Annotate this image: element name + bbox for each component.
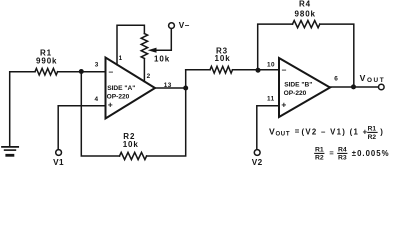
- svg-text:OP-220: OP-220: [284, 90, 307, 97]
- svg-text:R1: R1: [368, 126, 377, 133]
- svg-text:10k: 10k: [123, 140, 139, 149]
- svg-text:+: +: [281, 99, 286, 109]
- svg-text:–: –: [109, 66, 114, 76]
- svg-text:±0.005%: ±0.005%: [352, 149, 390, 158]
- svg-text:+: +: [108, 100, 113, 110]
- svg-text:2: 2: [147, 73, 151, 80]
- svg-text:11: 11: [267, 96, 275, 103]
- svg-text:R4: R4: [338, 147, 347, 154]
- svg-text:R2: R2: [368, 134, 377, 141]
- svg-text:10k: 10k: [215, 54, 231, 63]
- svg-text:R2: R2: [315, 155, 324, 162]
- svg-text:10: 10: [267, 61, 275, 68]
- svg-text:1: 1: [119, 55, 123, 62]
- svg-text:): ): [380, 128, 383, 137]
- svg-text:VOUT: VOUT: [269, 127, 290, 138]
- svg-text:SIDE "A": SIDE "A": [107, 85, 135, 92]
- svg-text:VOUT: VOUT: [360, 73, 386, 84]
- svg-text:=: =: [295, 127, 300, 136]
- svg-text:R3: R3: [338, 155, 347, 162]
- svg-text:4: 4: [95, 96, 99, 103]
- svg-text:R4: R4: [299, 0, 311, 9]
- svg-text:10k: 10k: [154, 55, 170, 64]
- svg-text:980k: 980k: [295, 10, 316, 19]
- svg-text:V–: V–: [179, 21, 190, 30]
- svg-text:(V2 – V1) (1 +: (V2 – V1) (1 +: [302, 128, 369, 137]
- svg-text:SIDE "B": SIDE "B": [284, 82, 312, 89]
- svg-text:3: 3: [95, 62, 99, 69]
- svg-text:–: –: [282, 65, 287, 75]
- svg-text:990k: 990k: [36, 57, 57, 66]
- svg-text:13: 13: [164, 82, 172, 89]
- svg-text:R1: R1: [315, 147, 324, 154]
- svg-text:V1: V1: [53, 158, 64, 167]
- svg-text:V2: V2: [252, 158, 263, 167]
- svg-text:6: 6: [334, 75, 338, 82]
- svg-text:=: =: [329, 149, 334, 158]
